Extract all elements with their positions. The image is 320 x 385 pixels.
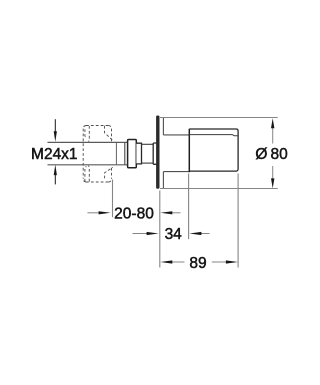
sleeve outline	[163, 135, 189, 172]
union nut	[128, 140, 137, 168]
escutcheon plate face bar	[156, 116, 159, 189]
collar behind nut	[136, 143, 141, 164]
extension line below handle right face (x=238.1)	[237, 174, 239, 268]
dimension 89 line with inside arrows	[160, 260, 238, 263]
threaded pipe (supply tube) outline / M24x1 extension lines	[48, 142, 128, 164]
pipe washer line	[124, 143, 126, 165]
svg-text:34: 34	[165, 226, 183, 243]
dashed rough-in valve body (concealed part)	[83, 125, 113, 182]
dimension Ø80 vertical line with inside arrows	[271, 118, 274, 188]
Ø80 extension line bottom	[160, 188, 278, 190]
extension line below handle left face (x=188.6)	[188, 174, 190, 240]
handle left face	[188, 129, 190, 172]
dimension M24x1 top arrow	[54, 119, 57, 142]
svg-text:Ø 80: Ø 80	[255, 146, 288, 163]
top-right notch + diagonal	[105, 126, 113, 140]
pipe end cap line	[115, 143, 117, 165]
handle outline	[189, 129, 238, 171]
valve stem shaft	[142, 144, 154, 163]
svg-text:89: 89	[189, 255, 206, 272]
bottom-right notch + diagonal	[105, 167, 113, 178]
svg-text:M24x1: M24x1	[31, 146, 78, 163]
dimension 34 right arrow	[189, 232, 209, 235]
handle inner chamfer line	[189, 135, 238, 136]
dimension 34 left arrow	[133, 232, 159, 235]
stem washer at plate	[153, 143, 156, 164]
outer dashed outline	[83, 126, 111, 183]
dimension M24x1 bottom arrow	[54, 165, 57, 185]
handle knob	[189, 129, 238, 172]
long extension line below plate (x=159.8)	[159, 191, 161, 268]
Ø80 extension line top	[160, 117, 278, 119]
bottom slot dashes with hooks	[85, 166, 89, 182]
extension line below dashed body (x=112.5)	[112, 180, 114, 218]
svg-text:20-80: 20-80	[114, 205, 154, 222]
dimension 20-80 left arrow	[87, 211, 110, 214]
top slot dashes with hooks	[85, 126, 89, 142]
plate rim verticals	[162, 118, 164, 189]
dimension 20-80 right arrow	[160, 211, 180, 214]
